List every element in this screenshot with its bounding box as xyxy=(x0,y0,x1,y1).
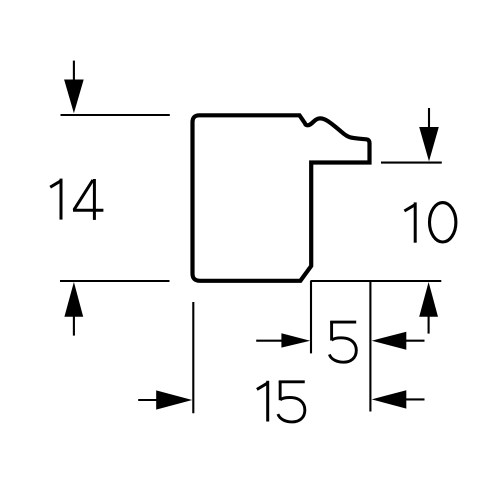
arrow 10 down head xyxy=(419,127,439,161)
extension line 5/15 right xyxy=(369,281,371,412)
arrow 15 left tail xyxy=(404,398,425,400)
label 14 digit 4 xyxy=(73,179,103,220)
label 10 digit 0 xyxy=(430,203,456,242)
arrow 14 down head xyxy=(64,80,84,114)
arrow 5 left head xyxy=(372,332,407,350)
arrow 14 down tail xyxy=(73,61,75,85)
dimension line 10/5/15 bottom right xyxy=(310,280,441,282)
label 5 xyxy=(329,321,356,362)
arrow 14 up tail xyxy=(73,314,75,336)
label 10 digit 1 xyxy=(404,202,415,242)
extension line 15 left xyxy=(192,302,194,413)
label 15 digit 5 xyxy=(278,381,305,422)
dimension line 14 top xyxy=(61,114,170,116)
label 15 digit 1 xyxy=(257,381,268,422)
arrow 10 up head xyxy=(419,282,438,317)
label 14 digit 1 xyxy=(50,179,61,220)
moulding profile outline xyxy=(193,115,370,280)
arrow 5 right tail xyxy=(256,340,283,342)
arrow 14 up head xyxy=(64,282,83,317)
arrow 15 right head xyxy=(156,390,192,409)
dimension line 14 bottom xyxy=(60,280,170,282)
extension line 5 left xyxy=(310,281,312,353)
dimension line 10 top xyxy=(381,162,442,164)
arrow 15 right tail xyxy=(138,399,160,401)
arrow 5 right head xyxy=(281,333,310,347)
arrow 5 left tail xyxy=(404,340,425,342)
arrow 10 up tail xyxy=(428,314,430,334)
arrow 15 left head xyxy=(372,390,407,408)
arrow 10 down tail xyxy=(428,108,430,132)
